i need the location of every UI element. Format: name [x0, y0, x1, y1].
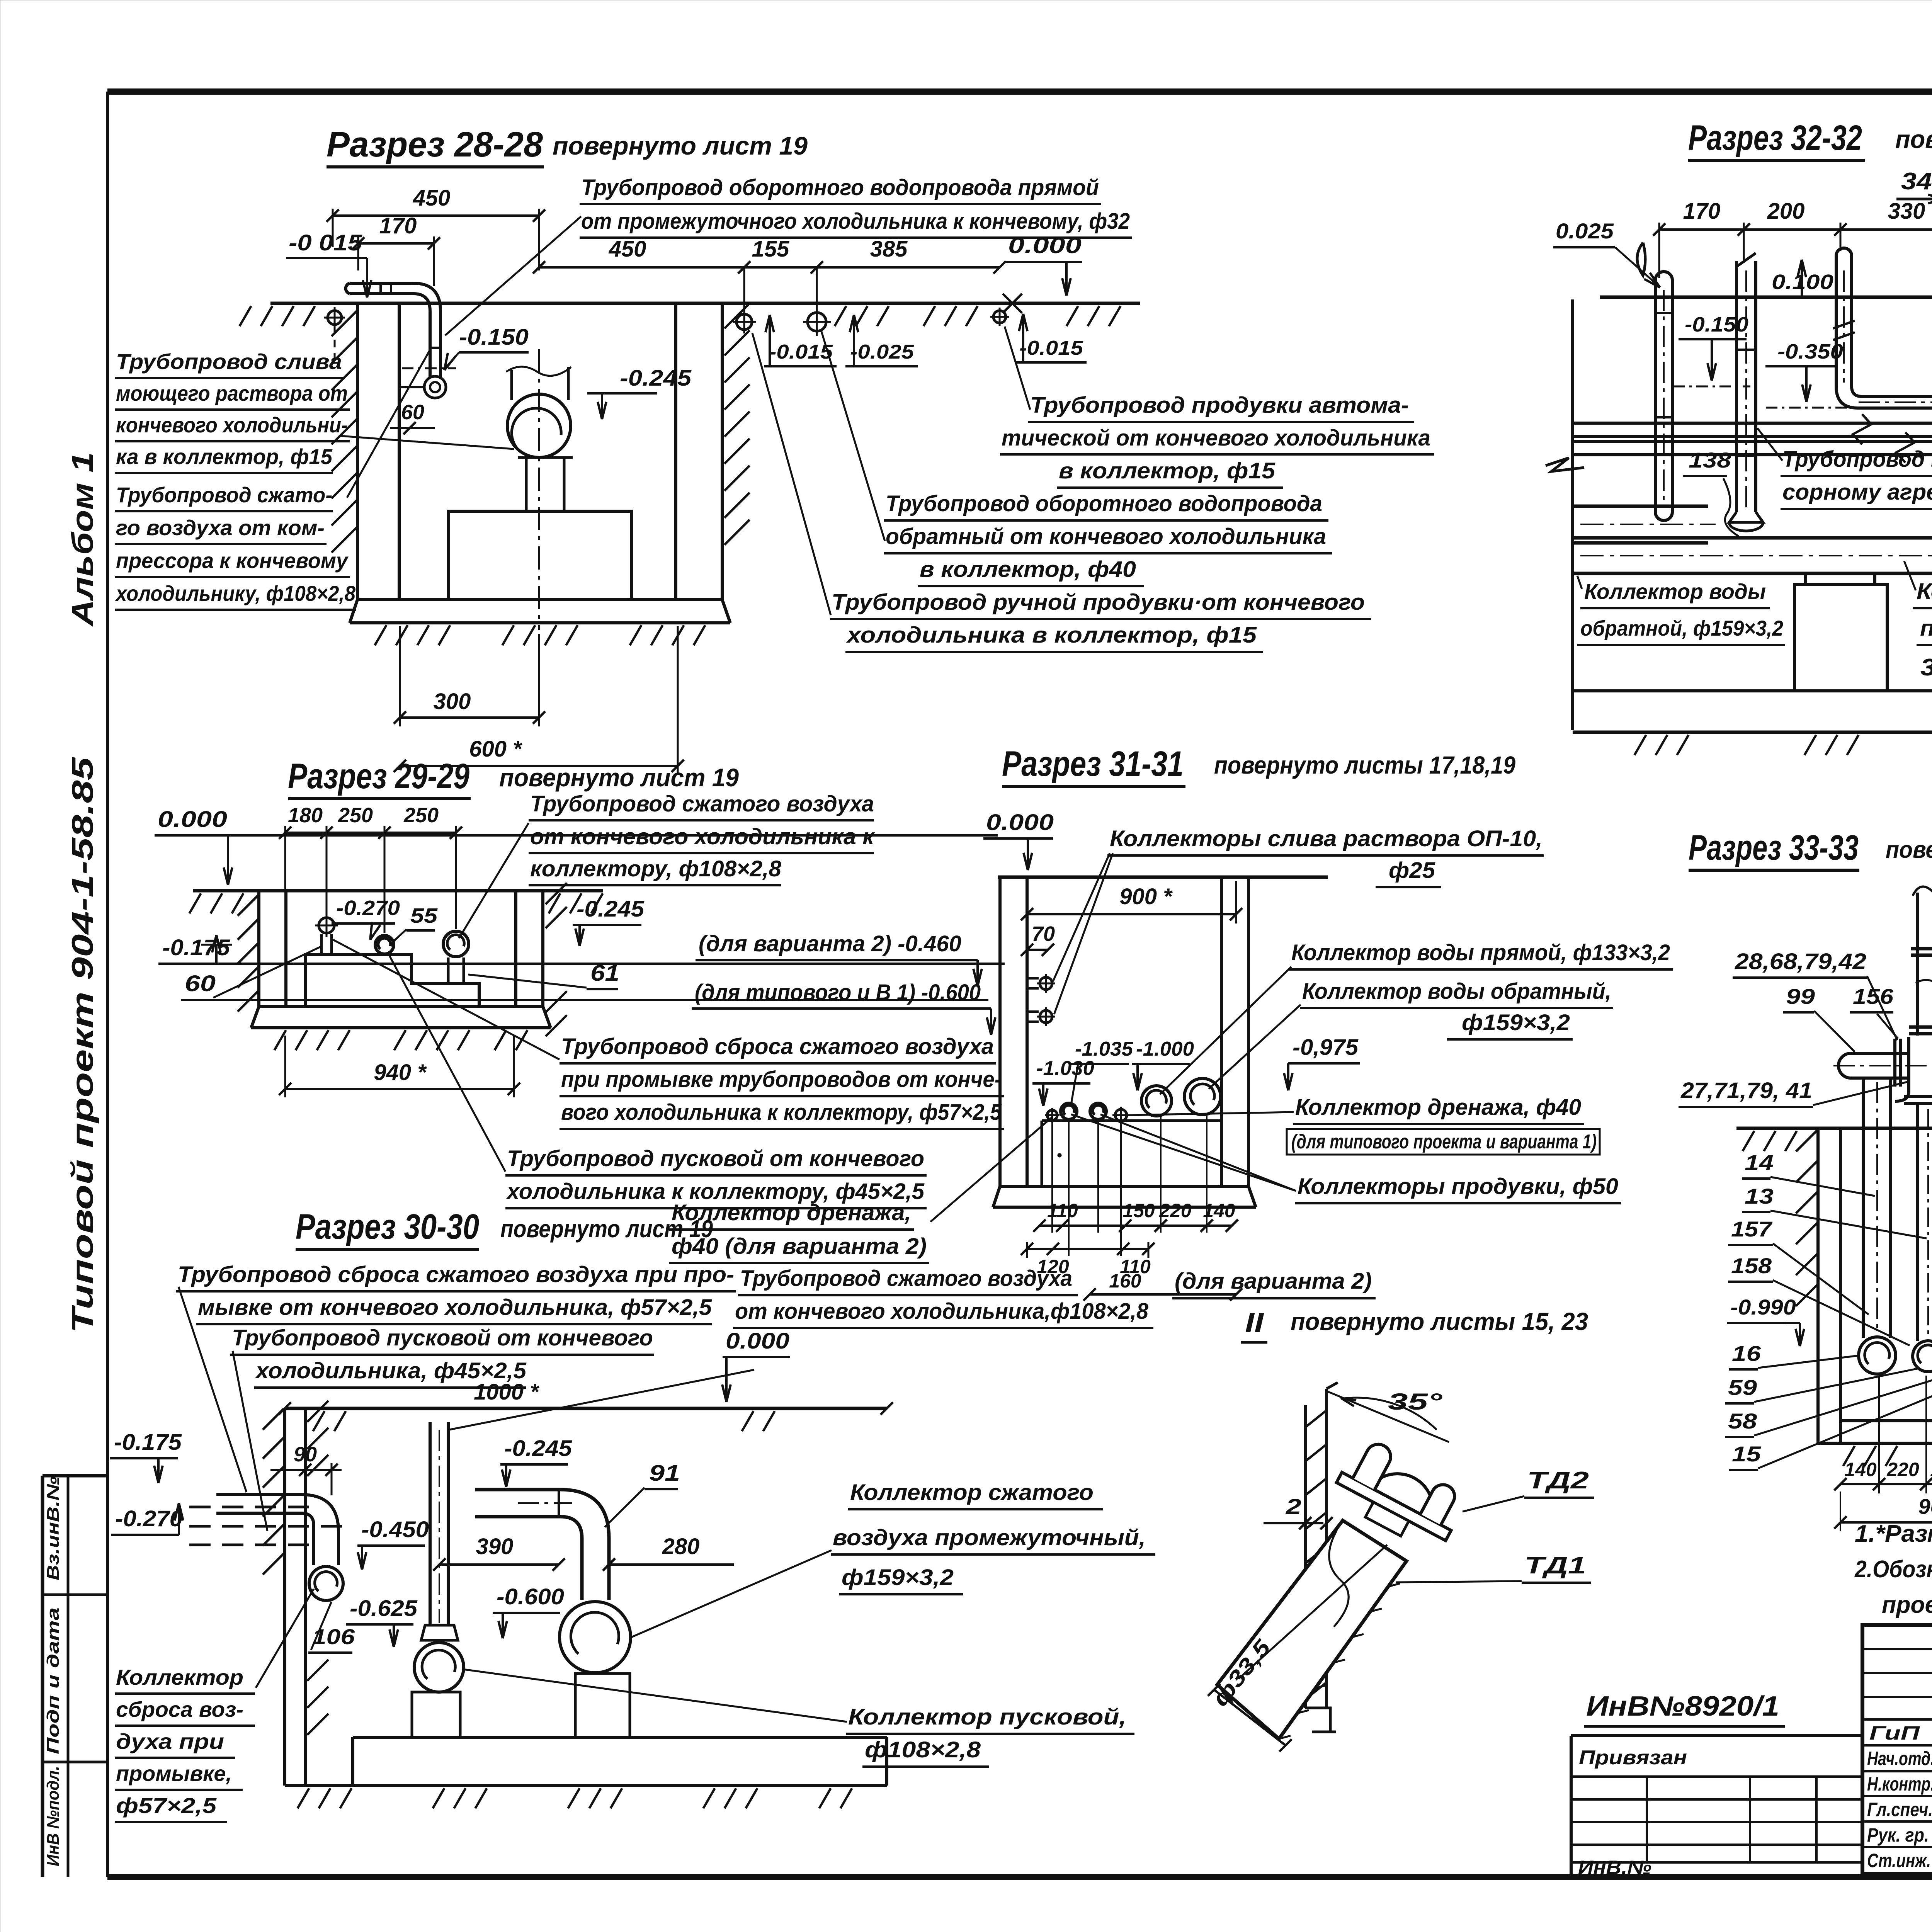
svg-text:60: 60 [185, 971, 216, 996]
svg-text:Трубопровод сброса сжатого воз: Трубопровод сброса сжатого воздуха [561, 1034, 994, 1059]
hatch below pit bottom [298, 1788, 309, 1808]
hatch below pit floor [375, 625, 386, 645]
svg-text:ф57×2,5: ф57×2,5 [116, 1793, 217, 1818]
svg-text:2.Обозначения трубопроводов и: 2.Обозначения трубопроводов и взаиморасп… [1854, 1556, 1932, 1583]
leader to elbow pipe [445, 216, 581, 335]
svg-text:Ст.инж.: Ст.инж. [1867, 1850, 1931, 1871]
svg-text:Трубопровод продувки автома-: Трубопровод продувки автома- [1030, 393, 1409, 418]
svg-text:Трубопровод слива: Трубопровод слива [116, 349, 342, 374]
svg-text:1000 *: 1000 * [474, 1379, 539, 1405]
right riser pipe in pit [1916, 1105, 1919, 1341]
svg-text:158: 158 [1731, 1253, 1772, 1278]
svg-text:-0.270: -0.270 [115, 1506, 183, 1531]
svg-text:0.000: 0.000 [726, 1328, 789, 1354]
svg-text:повернуто лист 19: повернуто лист 19 [500, 1215, 713, 1243]
svg-text:-0.245: -0.245 [577, 896, 645, 922]
wall bottom bracket [1305, 1708, 1336, 1732]
ground line 33-33 [1736, 1127, 1932, 1130]
svg-text:повернуто листы 17,18,19: повернуто листы 17,18,19 [1895, 125, 1932, 153]
svg-text:450: 450 [413, 185, 451, 211]
svg-text:духа при: духа при [116, 1729, 224, 1753]
left riser bottom elbow circle [1859, 1337, 1896, 1374]
pipe row big 2 [1184, 1078, 1221, 1115]
leaders to wall circles [1053, 853, 1110, 981]
svg-text:34: 34 [1901, 168, 1932, 195]
buried pipe symbol mid 2 [808, 313, 826, 331]
buried pipe symbol left [328, 311, 342, 325]
svg-text:прессора к кончевому: прессора к кончевому [116, 548, 349, 573]
svg-text:Трубопровод пусковой от кончев: Трубопровод пусковой от кончевого [232, 1325, 653, 1350]
svg-text:-0,975: -0,975 [1293, 1035, 1359, 1060]
pipe P3 with elbow to horizontal [1836, 256, 1932, 408]
dim row 140 220 150 110 120 [1840, 1483, 1932, 1485]
svg-text:мывке от кончевого холодильник: мывке от кончевого холодильника, ф57×2,5 [198, 1295, 712, 1320]
svg-text:-0.150: -0.150 [1685, 313, 1748, 336]
dim row1 110 150 220 140 [1039, 1225, 1232, 1227]
pipe P1 far left vertical [1654, 280, 1657, 512]
pit left wall 30-30 [283, 1408, 286, 1786]
leader down into pit 2 [233, 1351, 267, 1531]
svg-text:холодильника в коллектор, ф15: холодильника в коллектор, ф15 [846, 622, 1257, 648]
svg-text:0.000: 0.000 [158, 807, 227, 832]
privyazan box [1571, 1734, 1862, 1737]
svg-text:Подп и дата: Подп и дата [44, 1607, 63, 1754]
svg-text:450: 450 [609, 236, 646, 262]
outer frame border bottom [107, 1874, 1932, 1880]
svg-text:180: 180 [288, 804, 323, 827]
horizontal main upper with breaks [1573, 422, 1932, 425]
svg-text:390: 390 [476, 1534, 514, 1559]
svg-text:385: 385 [870, 236, 908, 262]
svg-text:проекта и вариантов 1 и 2 см.р: проекта и вариантов 1 и 2 см.разрез 31-3… [1882, 1592, 1932, 1618]
svg-text:Коллектор пусковой,: Коллектор пусковой, [848, 1704, 1126, 1730]
svg-text:15: 15 [1732, 1442, 1761, 1466]
svg-text:Коллектор воды прямой, ф133×3,: Коллектор воды прямой, ф133×3,2 [1291, 940, 1670, 965]
valve assembly top pipe [1916, 893, 1919, 1036]
right pipe big circle [560, 1602, 631, 1673]
svg-text:моющего раствора от: моющего раствора от [116, 381, 348, 405]
buried pipe symbol mid 1 [736, 314, 752, 330]
pit right wall [674, 303, 677, 600]
svg-text:2: 2 [1286, 1494, 1301, 1519]
svg-text:(для типового и В 1) -0.600: (для типового и В 1) -0.600 [695, 980, 981, 1005]
svg-text:Трубопровод пусковой от кончев: Трубопровод пусковой от кончевого [507, 1146, 924, 1171]
svg-text:170: 170 [379, 213, 417, 238]
svg-text:Вз.инВ.№: Вз.инВ.№ [44, 1476, 63, 1580]
svg-text:Трубопровод воды прямой к комп: Трубопровод воды прямой к компрес- [1782, 447, 1932, 472]
wall hatches 33-33 [1796, 1130, 1817, 1151]
pipe stub above circle with break [510, 370, 513, 400]
svg-text:28,68,79,42: 28,68,79,42 [1735, 949, 1866, 974]
ground line razrez 28-28 [270, 302, 1140, 305]
left riser pipe in pit [1862, 1078, 1865, 1338]
svg-text:106: 106 [312, 1624, 355, 1649]
detail pipe TD1 sleeve [1217, 1520, 1406, 1739]
svg-text:220: 220 [1159, 1200, 1192, 1221]
leader to right big circle [631, 1550, 832, 1637]
centre pipe 30-30 [429, 1422, 432, 1625]
right pedestal [575, 1673, 630, 1737]
svg-text:II: II [1245, 1308, 1264, 1338]
signature table name rows [1862, 1744, 1932, 1747]
svg-text:Разрез 30-30: Разрез 30-30 [296, 1207, 479, 1247]
svg-text:170: 170 [1683, 199, 1721, 224]
svg-text:58: 58 [1728, 1409, 1757, 1433]
break on riser [1916, 980, 1932, 983]
buried pipe symbol right [993, 311, 1006, 323]
dim chain top 170 200 330 300 220 620 [1659, 228, 1932, 231]
svg-text:35°: 35° [1388, 1389, 1443, 1415]
svg-text:0.000: 0.000 [986, 810, 1054, 835]
svg-text:140: 140 [1203, 1200, 1235, 1221]
signature table small rows [1862, 1648, 1932, 1650]
pit floor [357, 598, 722, 601]
svg-text:Типовой проект 904-1-58.85: Типовой проект 904-1-58.85 [65, 757, 99, 1333]
vertical centerline [538, 349, 540, 630]
pipe P2 vertical with flared bottom [1735, 261, 1738, 512]
svg-text:Трубопровод оборотного водопро: Трубопровод оборотного водопровода [886, 491, 1322, 516]
ground line 31-31 [998, 876, 1328, 879]
svg-text:91: 91 [649, 1461, 680, 1486]
svg-text:138: 138 [1689, 448, 1731, 472]
dim row2 120 110 [1027, 1248, 1148, 1250]
svg-text:-0.600: -0.600 [497, 1584, 564, 1609]
leader from label to vertical pipe [347, 350, 430, 498]
svg-text:1.*Размеры для справок.: 1.*Размеры для справок. [1855, 1520, 1932, 1547]
svg-text:55: 55 [410, 904, 438, 927]
svg-text:250: 250 [403, 804, 439, 827]
svg-text:Трубопровод сжатого воздуха: Трубопровод сжатого воздуха [740, 1266, 1072, 1291]
svg-text:940 *: 940 * [374, 1060, 427, 1085]
pedestal cap under f133 [1806, 572, 1875, 575]
flange pair upper [1911, 947, 1932, 951]
svg-text:коллектору, ф108×2,8: коллектору, ф108×2,8 [530, 856, 782, 881]
svg-text:34: 34 [1920, 654, 1932, 681]
attachment table [1571, 1798, 1862, 1801]
collector vody pryamoy pipe f133 [1573, 536, 1932, 540]
svg-text:ф108×2,8: ф108×2,8 [865, 1737, 981, 1762]
svg-text:ф25: ф25 [1389, 858, 1435, 883]
leader down into pit [179, 1287, 247, 1492]
svg-text:-0.015: -0.015 [769, 341, 833, 363]
stepped pedestal [305, 954, 479, 1007]
plinth block [449, 511, 631, 600]
dim row3 160 [1090, 1293, 1236, 1296]
dashed level lines [189, 1506, 309, 1509]
detail gland TD2 [1328, 1434, 1471, 1556]
pipe row small 4 [1115, 1109, 1127, 1121]
break arrow on left edge [1546, 458, 1584, 471]
svg-text:330: 330 [1888, 199, 1925, 224]
dim phi 33.5 [1214, 1690, 1286, 1745]
left margin stamp boxes [43, 1474, 106, 1478]
wall hatch left [238, 895, 259, 916]
ground hatch left [240, 306, 251, 326]
leader to S2 [388, 954, 505, 1172]
svg-text:Разрез 33-33: Разрез 33-33 [1689, 828, 1859, 867]
leader to left circle [256, 1589, 314, 1688]
ground bottom line with hatch [1573, 731, 1932, 734]
svg-text:900 *: 900 * [1119, 884, 1173, 909]
svg-text:сорному агрегату, ф57×2,5: сорному агрегату, ф57×2,5 [1782, 480, 1932, 505]
svg-text:-0.150: -0.150 [459, 325, 529, 350]
svg-text:61: 61 [590, 961, 619, 986]
svg-text:в коллектор, ф40: в коллектор, ф40 [920, 557, 1136, 582]
wall collector circles [1040, 977, 1052, 990]
pit walls 33-33 [1816, 1128, 1820, 1443]
detail wall strip [1304, 1405, 1307, 1708]
leader to f133 pipe [1904, 561, 1916, 590]
wall top tick [1327, 1383, 1338, 1389]
svg-text:Разрез 29-29: Разрез 29-29 [288, 757, 469, 796]
leader to centre pipe [449, 1370, 754, 1430]
svg-text:300: 300 [434, 689, 471, 714]
detail break curve [1329, 1530, 1349, 1627]
svg-text:Коллектор сжатого: Коллектор сжатого [850, 1480, 1094, 1505]
svg-text:60: 60 [401, 401, 424, 424]
vertical flange on tee [1893, 1039, 1896, 1087]
hatch below ground 30-30 [313, 1411, 325, 1431]
leader from label to pit pipe [340, 436, 514, 449]
pit bottom 30-30 [285, 1784, 887, 1787]
svg-text:от промежуточного холодильника: от промежуточного холодильника к кончево… [581, 209, 1130, 234]
left elbow pipe 30-30 [216, 1495, 338, 1565]
bench inside pit [1041, 1121, 1043, 1186]
pipe P3 centerline [1843, 270, 1845, 383]
pipe symbol S1 with stub [319, 918, 334, 933]
svg-text:155: 155 [752, 236, 790, 262]
svg-text:-0 015: -0 015 [289, 230, 362, 255]
pipe section circle in pit [507, 394, 571, 457]
pipe row small 1 [1047, 1110, 1057, 1120]
pipe row small 2 [1061, 1103, 1077, 1119]
svg-text:ГиП: ГиП [1869, 1722, 1920, 1744]
svg-text:280: 280 [662, 1534, 700, 1559]
svg-text:157: 157 [1731, 1217, 1773, 1241]
svg-text:900 *: 900 * [1918, 1494, 1932, 1519]
svg-text:от кончевого холодильника,ф108: от кончевого холодильника,ф108×2,8 [735, 1299, 1149, 1324]
hatch below pit 33-33 [1843, 1446, 1855, 1466]
svg-text:го воздуха от ком-: го воздуха от ком- [116, 515, 325, 540]
svg-text:-0.245: -0.245 [504, 1436, 572, 1461]
svg-text:ТД2: ТД2 [1527, 1467, 1589, 1494]
svg-text:Коллектор: Коллектор [116, 1665, 243, 1689]
pit floor 29-29 [259, 1005, 543, 1008]
svg-text:16: 16 [1732, 1341, 1761, 1366]
ground line razrez 32-32 [1600, 296, 1932, 299]
leader obratnoy [1577, 576, 1582, 589]
svg-text:Трубопровод ручной продувки·от: Трубопровод ручной продувки·от кончевого [832, 590, 1365, 615]
dim chain 450 155 385 on zero line [539, 266, 1000, 269]
svg-text:сброса воз-: сброса воз- [116, 1697, 243, 1721]
svg-text:-0.450: -0.450 [361, 1517, 429, 1542]
collector vody obratnoy big pipe f159 [1573, 505, 1708, 508]
bottom flange under tee [1904, 1095, 1932, 1098]
wall hatch right outside [724, 303, 750, 328]
svg-text:-0.175: -0.175 [114, 1430, 182, 1455]
svg-text:Коллектор дренажа, ф40: Коллектор дренажа, ф40 [1295, 1095, 1581, 1120]
svg-text:при промывке трубопроводов от: при промывке трубопроводов от конче- [561, 1067, 1002, 1092]
tee centreline [1833, 1065, 1932, 1066]
hatch below floor [274, 1030, 286, 1050]
moon mark [1637, 243, 1645, 276]
svg-text:ф159×3,2: ф159×3,2 [842, 1565, 954, 1590]
leader from -0.015 circle to label A [1005, 327, 1030, 410]
centre pedestal [412, 1692, 460, 1737]
horizontal main lower with breaks [1573, 440, 1932, 443]
svg-text:от кончевого холодильника к: от кончевого холодильника к [530, 824, 875, 849]
svg-text:повернуто листы 15, 23: повернуто листы 15, 23 [1291, 1308, 1588, 1335]
platform slab [353, 1736, 887, 1739]
svg-text:99: 99 [1786, 984, 1815, 1009]
leader to S1 [333, 940, 560, 1060]
leader to 31-31 small pipe [930, 1117, 1052, 1222]
svg-text:ИнВ№8920/1: ИнВ№8920/1 [1586, 1691, 1779, 1722]
svg-text:Рук. гр.: Рук. гр. [1867, 1824, 1929, 1846]
svg-text:тической от кончевого холодиль: тической от кончевого холодильника [1002, 425, 1430, 451]
svg-text:повернуто листы 17,18,19: повернуто листы 17,18,19 [1886, 837, 1932, 863]
svg-text:Коллектор воды: Коллектор воды [1584, 579, 1766, 604]
pedestal under collector [1794, 585, 1887, 691]
left edge vertical 32-32 [1571, 299, 1574, 730]
svg-text:-0.990: -0.990 [1730, 1295, 1796, 1319]
pedestal column [525, 457, 528, 511]
dim chain 180 250 250 [285, 832, 456, 834]
svg-text:200: 200 [1767, 199, 1805, 224]
svg-text:Разрез 31-31: Разрез 31-31 [1002, 744, 1184, 784]
ground hatch right of pit [835, 306, 846, 326]
svg-text:-1.000: -1.000 [1136, 1038, 1194, 1060]
svg-text:ф159×3,2: ф159×3,2 [1462, 1010, 1570, 1035]
svg-text:150: 150 [1122, 1200, 1155, 1221]
pit walls 31-31 [998, 877, 1002, 1186]
pipe symbol S2 [375, 935, 394, 954]
svg-text:220: 220 [1886, 1459, 1919, 1480]
svg-text:(для типового проекта и вариан: (для типового проекта и варианта 1) [1291, 1131, 1597, 1153]
svg-text:Разрез 28-28: Разрез 28-28 [327, 125, 543, 164]
outer frame border left [106, 92, 109, 1877]
svg-text:160: 160 [1109, 1270, 1141, 1292]
svg-text:-0.350: -0.350 [1777, 340, 1843, 363]
svg-text:повернуто лист 19: повернуто лист 19 [499, 763, 739, 792]
svg-text:Гл.спеч.: Гл.спеч. [1867, 1799, 1932, 1820]
boxed label dlya tipovogo proekta [1287, 1129, 1600, 1155]
svg-text:воздуха промежуточный,: воздуха промежуточный, [833, 1525, 1146, 1550]
svg-text:повернуто листы 17,18,19: повернуто листы 17,18,19 [1214, 751, 1515, 779]
ground line 29-29 [193, 889, 603, 893]
drain spiral at pipe bottom [424, 376, 446, 398]
svg-text:холодильнику, ф108×2,8: холодильнику, ф108×2,8 [115, 581, 356, 605]
svg-text:ТД1: ТД1 [1524, 1552, 1586, 1579]
leader from circle 2 to label B [821, 332, 885, 541]
outer frame border top [107, 88, 1932, 95]
svg-text:-1.035: -1.035 [1075, 1038, 1133, 1060]
svg-text:-0.245: -0.245 [620, 366, 692, 391]
svg-text:промывке,: промывке, [116, 1761, 232, 1786]
svg-text:13: 13 [1745, 1184, 1774, 1208]
elbow pipe above ground [350, 283, 440, 377]
svg-text:ИнВ №подл.: ИнВ №подл. [44, 1766, 63, 1866]
svg-text:в коллектор, ф15: в коллектор, ф15 [1059, 458, 1276, 483]
pit interior bottom 33-33 [1840, 1419, 1932, 1422]
centre pipe circle [414, 1643, 464, 1692]
svg-text:-0.270: -0.270 [336, 896, 400, 920]
svg-text:Коллекторы слива раствора ОП-1: Коллекторы слива раствора ОП-10, [1110, 826, 1543, 851]
flange pair lower [1909, 1026, 1932, 1029]
svg-text:27,71,79, 41: 27,71,79, 41 [1680, 1078, 1812, 1103]
leader from circle 1 to label C [752, 333, 831, 615]
svg-text:140: 140 [1844, 1459, 1877, 1480]
svg-text:обратной, ф159×3,2: обратной, ф159×3,2 [1580, 616, 1783, 640]
svg-text:Коллектор воды обратный,: Коллектор воды обратный, [1302, 979, 1611, 1004]
svg-text:Трубопровод сжатого воздуха: Трубопровод сжатого воздуха [530, 791, 874, 816]
svg-text:Альбом 1: Альбом 1 [65, 452, 99, 627]
pit walls 29-29 [257, 891, 260, 1007]
left pipe end circle [309, 1566, 343, 1600]
svg-text:Нач.отд.: Нач.отд. [1867, 1748, 1932, 1769]
svg-text:150: 150 [1930, 1459, 1932, 1480]
svg-text:кончевого холодильни-: кончевого холодильни- [116, 413, 348, 437]
svg-text:обратный от кончевого холодиль: обратный от кончевого холодильника [886, 524, 1326, 549]
svg-text:59: 59 [1728, 1375, 1757, 1400]
pit left wall [356, 303, 359, 600]
svg-text:-0.625: -0.625 [350, 1596, 418, 1621]
svg-text:-0.015: -0.015 [1019, 337, 1083, 359]
right riser bottom elbow circle [1913, 1341, 1932, 1372]
svg-text:14: 14 [1745, 1150, 1774, 1175]
svg-text:-1.030: -1.030 [1036, 1057, 1094, 1080]
svg-text:(для варианта 2) -0.460: (для варианта 2) -0.460 [699, 931, 961, 956]
pipe symbol S3 with stub [443, 931, 469, 957]
svg-text:вого холодильника к коллектору: вого холодильника к коллектору, ф57×2,5 [561, 1100, 1002, 1125]
right elbow pipe 30-30 [475, 1490, 609, 1600]
svg-text:повернуто лист 19: повернуто лист 19 [553, 131, 808, 160]
svg-text:Привязан: Привязан [1579, 1747, 1687, 1769]
svg-text:Трубопровод сжато-: Трубопровод сжато- [116, 483, 332, 507]
svg-text:прямой ф133×3,2: прямой ф133×3,2 [1920, 616, 1932, 641]
leader to P2 [1757, 428, 1782, 461]
wall hatch left outside [332, 311, 357, 336]
svg-text:ИнВ.№: ИнВ.№ [1578, 1857, 1651, 1878]
svg-text:70: 70 [1032, 922, 1055, 946]
svg-text:(для варианта 2): (для варианта 2) [1175, 1269, 1372, 1294]
svg-text:Трубопровод оборотного водопро: Трубопровод оборотного водопровода прямо… [581, 175, 1099, 200]
svg-text:250: 250 [338, 804, 373, 827]
svg-text:0.000: 0.000 [1008, 233, 1082, 258]
svg-text:Коллекторы продувки, ф50: Коллекторы продувки, ф50 [1298, 1174, 1618, 1199]
svg-text:156: 156 [1853, 984, 1894, 1009]
leader to S3 [459, 823, 529, 938]
svg-text:Разрез 32-32: Разрез 32-32 [1688, 118, 1862, 158]
pipe row small 3 [1090, 1103, 1106, 1119]
tee body [1895, 1037, 1932, 1101]
svg-text:600 *: 600 * [469, 736, 522, 762]
svg-text:-0.025: -0.025 [850, 341, 914, 363]
title block outer [1862, 1625, 1932, 1877]
foundation line [1573, 689, 1932, 692]
pit floor 31-31 [1000, 1185, 1248, 1188]
leader to centre circle [463, 1669, 847, 1722]
svg-text:0.025: 0.025 [1556, 219, 1614, 243]
left horizontal pipe of tee [1851, 1052, 1909, 1055]
svg-text:Трубопровод сброса сжатого воз: Трубопровод сброса сжатого воздуха при п… [178, 1262, 734, 1287]
svg-text:Коллектор воды: Коллектор воды [1917, 579, 1932, 604]
wall hatch right [546, 883, 567, 904]
svg-text:Н.контр.: Н.контр. [1867, 1773, 1932, 1795]
pipe row big 1 [1141, 1086, 1172, 1116]
svg-text:ка в коллектор, ф15: ка в коллектор, ф15 [116, 444, 333, 469]
